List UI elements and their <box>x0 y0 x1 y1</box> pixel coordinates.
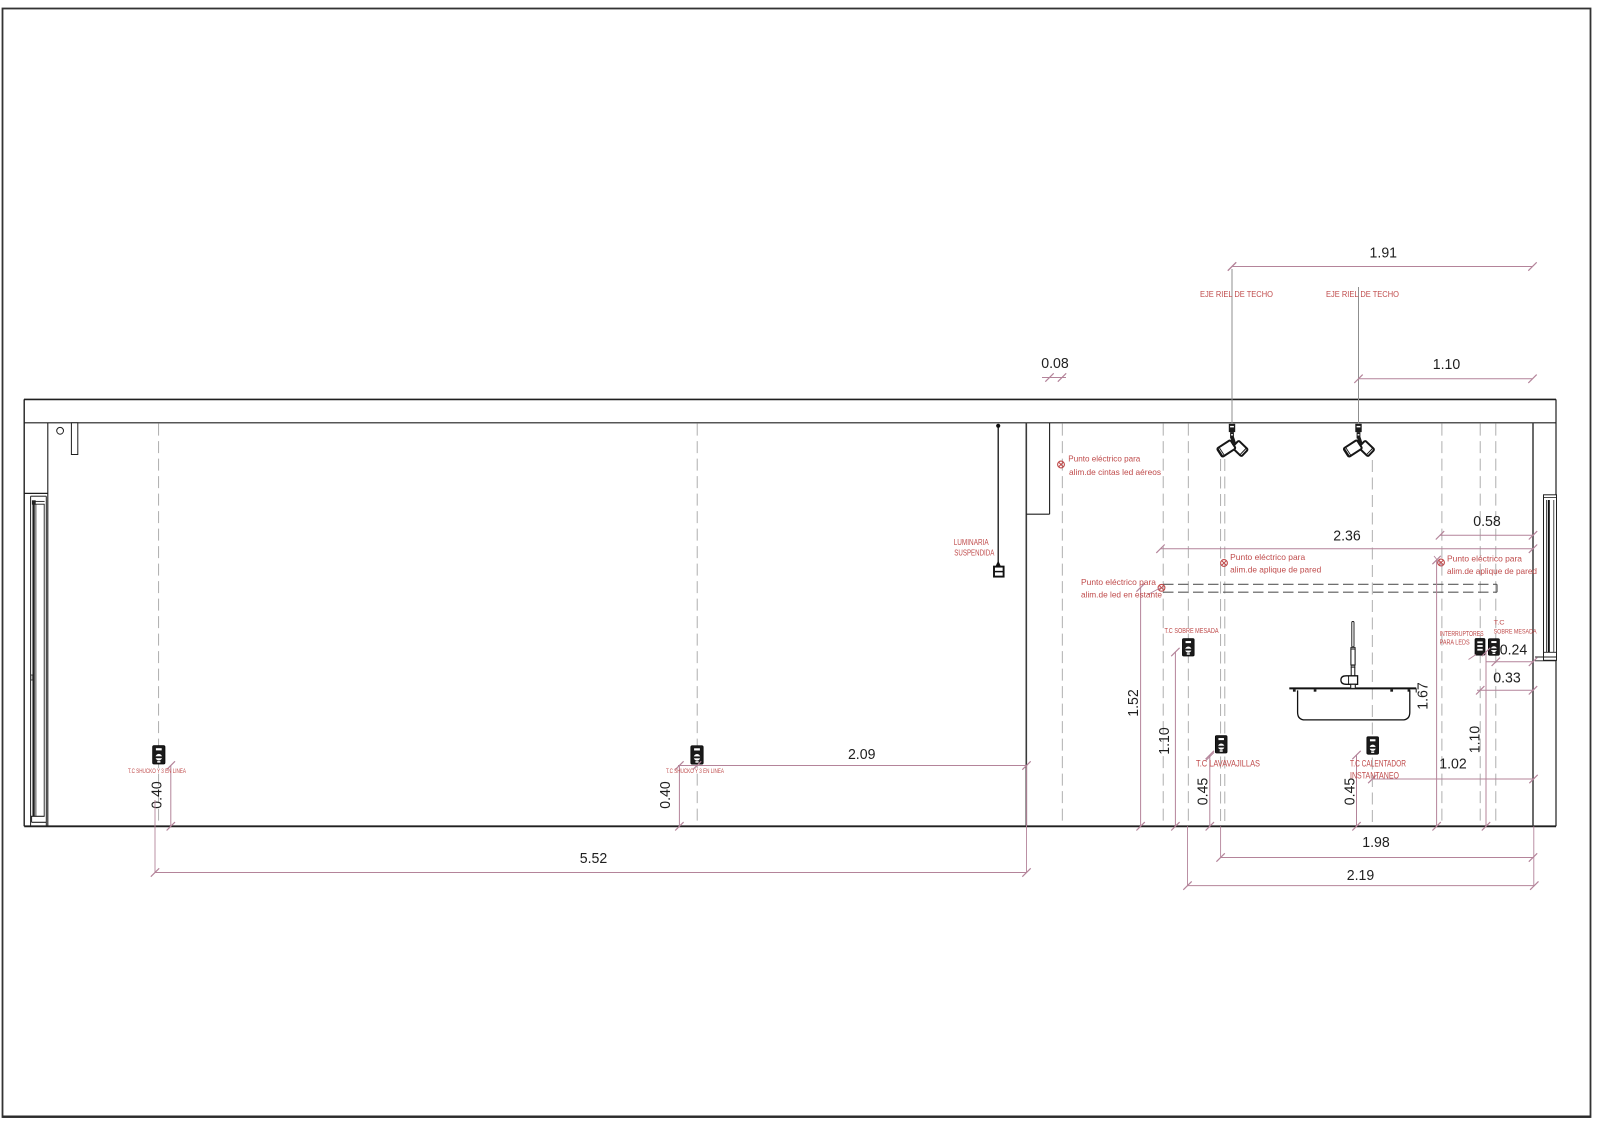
svg-text:INSTANTANEO: INSTANTANEO <box>1350 771 1399 781</box>
svg-text:2.36: 2.36 <box>1333 528 1361 545</box>
dimension 1.67 <box>1436 560 1438 826</box>
extension line 5.52/2.09 right <box>1026 766 1028 874</box>
extension line right wall dims <box>1533 826 1535 886</box>
svg-text:0.40: 0.40 <box>149 781 166 809</box>
extension line 1.91 tick base 1 <box>1228 262 1236 270</box>
centerline axis shucko 2 <box>696 424 698 826</box>
dimension 1.10 left-bottom <box>1174 652 1176 826</box>
sink counter rim <box>1289 687 1416 689</box>
dimension 5.52 <box>155 872 1027 874</box>
ceiling sensor circle <box>57 427 64 434</box>
centerline axis shucko 1 <box>158 424 160 826</box>
extension line 1.98 left <box>1220 826 1222 858</box>
svg-text:1.67: 1.67 <box>1415 682 1432 710</box>
svg-text:LUMINARIA: LUMINARIA <box>954 538 990 547</box>
dimension 0.45 calentador <box>1356 755 1358 826</box>
extension line 5.52 left <box>154 800 156 873</box>
dimension 0.45 lavavajillas <box>1209 755 1211 826</box>
ceiling band top line <box>24 398 1556 400</box>
faucet joint mid <box>1351 665 1355 667</box>
svg-text:0.08: 0.08 <box>1041 355 1069 372</box>
svg-text:SOBRE MESADA: SOBRE MESADA <box>1494 629 1537 636</box>
centerline axis tc sobre mesada L <box>1187 424 1189 826</box>
svg-text:EJE RIEL DE TECHO: EJE RIEL DE TECHO <box>1326 289 1399 299</box>
shelf led dashed line bottom <box>1163 591 1497 593</box>
dimension 0.58 <box>1440 534 1533 536</box>
sink clip ticks <box>1293 689 1296 691</box>
svg-text:alim.de cintas led aéreos: alim.de cintas led aéreos <box>1069 468 1161 477</box>
svg-text:1.02: 1.02 <box>1439 756 1467 773</box>
centerline axis aplique R <box>1441 424 1443 826</box>
svg-text:2.19: 2.19 <box>1347 867 1375 884</box>
dimension 2.09 <box>678 765 1027 767</box>
faucet riser <box>1352 622 1354 648</box>
svg-text:0.45: 0.45 <box>1195 778 1212 806</box>
window right sill lines <box>1544 651 1557 653</box>
electric point punto cintas led <box>1058 461 1065 468</box>
wall middle partition <box>1025 423 1027 827</box>
svg-text:1.91: 1.91 <box>1370 245 1398 262</box>
electric point punto led estante <box>1158 584 1165 591</box>
svg-text:alim.de aplique de pared: alim.de aplique de pared <box>1447 567 1537 576</box>
socket T.C sobre mesada R <box>1488 639 1499 656</box>
svg-text:T.C: T.C <box>1494 619 1505 626</box>
eje riel line 1 <box>1231 269 1233 424</box>
svg-text:1.10: 1.10 <box>1156 727 1173 755</box>
socket T.C sobre mesada L <box>1182 639 1194 656</box>
door leaf inner line 2 <box>43 504 45 816</box>
svg-text:0.45: 0.45 <box>1342 778 1359 806</box>
svg-text:EJE RIEL DE TECHO: EJE RIEL DE TECHO <box>1200 289 1273 299</box>
dimension 0.33 <box>1477 689 1534 691</box>
soffit column right of partition <box>1049 423 1051 514</box>
extension line 2.19 left <box>1187 826 1189 886</box>
svg-text:1.52: 1.52 <box>1125 689 1142 717</box>
leader interruptores <box>1469 655 1477 660</box>
sink bowl <box>1298 690 1410 720</box>
wall left outer line <box>23 399 25 826</box>
door handle tick <box>31 675 33 680</box>
floor line <box>24 825 1556 827</box>
svg-text:5.52: 5.52 <box>580 850 608 867</box>
pendant cone <box>995 561 1001 567</box>
dimension 1.02 <box>1372 778 1533 780</box>
svg-text:alim.de led en estante: alim.de led en estante <box>1081 591 1162 600</box>
centerline axis aplique L <box>1224 459 1226 826</box>
svg-text:Punto eléctrico para: Punto eléctrico para <box>1081 578 1156 587</box>
pendant lamp body <box>994 567 1004 577</box>
leader lavavajillas <box>1206 753 1214 761</box>
door bottom rail <box>31 815 45 817</box>
svg-text:T.C SOBRE MESADA: T.C SOBRE MESADA <box>1165 626 1219 635</box>
svg-text:PARA LEDS: PARA LEDS <box>1440 640 1470 647</box>
centerline axis led estante <box>1162 424 1164 826</box>
pendant lamp middle line <box>994 571 1004 573</box>
dimension 1.10 top <box>1359 378 1533 380</box>
dimension 1.91 <box>1232 266 1533 268</box>
centerline axis cintas led <box>1061 424 1063 826</box>
leader led estante <box>1148 588 1161 595</box>
dimension 1.10 right-bottom <box>1485 652 1487 826</box>
door leaf thick edge <box>32 504 34 816</box>
spotlight track light 2 <box>1343 424 1374 457</box>
faucet spout divider <box>1348 676 1350 685</box>
socket T.C lavavajillas <box>1215 736 1227 753</box>
svg-text:Punto eléctrico para: Punto eléctrico para <box>1447 555 1522 564</box>
svg-text:0.40: 0.40 <box>657 781 674 809</box>
leader aplique R <box>1434 556 1443 567</box>
svg-text:T.C CALENTADOR: T.C CALENTADOR <box>1350 759 1406 769</box>
svg-text:1.10: 1.10 <box>1433 356 1461 373</box>
dimension 0.08 <box>1042 377 1066 379</box>
centerline axis tc lavavajillas <box>1220 459 1222 826</box>
shelf led dashed line top <box>1163 583 1497 585</box>
svg-text:Punto eléctrico para: Punto eléctrico para <box>1068 455 1140 464</box>
door frame top <box>31 495 47 497</box>
wall right inner line <box>1532 423 1534 827</box>
faucet joint top <box>1351 647 1355 649</box>
svg-text:0.24: 0.24 <box>1500 642 1528 659</box>
wall left lintel line <box>24 492 48 494</box>
window right head line <box>1544 497 1557 499</box>
shelf led end cap <box>1496 584 1498 592</box>
wall left inner line <box>47 423 49 827</box>
dimension 1.98 <box>1221 857 1533 859</box>
window right glass thick line <box>1548 500 1550 652</box>
faucet lower column <box>1351 667 1355 676</box>
socket T.C shucko 1 <box>153 746 165 764</box>
svg-text:T.C LAVAVAJILLAS: T.C LAVAVAJILLAS <box>1196 759 1260 769</box>
electric point punto aplique L <box>1221 560 1228 567</box>
ceiling band bottom line <box>24 422 1556 424</box>
faucet spout body <box>1341 676 1358 685</box>
dimension 0.40 left <box>170 766 172 827</box>
pendant cord <box>997 424 999 563</box>
electric point punto aplique R <box>1438 559 1445 566</box>
door head corner block <box>32 501 35 505</box>
door frame right <box>45 496 47 826</box>
door head detail <box>32 500 44 502</box>
svg-text:alim.de aplique de pared: alim.de aplique de pared <box>1230 566 1321 575</box>
svg-text:Punto eléctrico para: Punto eléctrico para <box>1230 553 1305 562</box>
door leaf inner line 1 <box>35 504 37 816</box>
faucet upper column <box>1351 649 1355 665</box>
window right frame outer <box>1544 495 1557 661</box>
centerline axis tc sobre mesada R <box>1495 424 1497 826</box>
svg-text:1.98: 1.98 <box>1362 834 1390 851</box>
centerline axis interruptores <box>1479 424 1481 826</box>
dimension 0.40 mid <box>678 766 680 827</box>
spotlight track light 1 <box>1217 424 1248 457</box>
dimension 0.24 <box>1486 661 1534 663</box>
svg-text:T.C SHUCKO Y 3 EN LINEA: T.C SHUCKO Y 3 EN LINEA <box>666 769 724 775</box>
svg-text:1.10: 1.10 <box>1467 726 1484 754</box>
wall right outer line <box>1555 399 1557 826</box>
switch interruptores para leds <box>1475 639 1485 656</box>
svg-text:INTERRUPTORES: INTERRUPTORES <box>1440 631 1484 638</box>
dimension 2.36 <box>1161 548 1534 550</box>
dimension 2.19 <box>1188 885 1535 887</box>
svg-text:SUSPENDIDA: SUSPENDIDA <box>954 549 995 558</box>
centerline axis sink / calentador <box>1371 460 1373 826</box>
ceiling strip fixture <box>71 423 77 455</box>
svg-text:0.33: 0.33 <box>1493 670 1521 687</box>
svg-text:T.C SHUCKO Y 3 EN LINEA: T.C SHUCKO Y 3 EN LINEA <box>128 769 186 775</box>
eje riel line 2 <box>1358 287 1360 424</box>
dimension 1.52 <box>1140 588 1142 827</box>
socket T.C shucko 2 <box>691 746 703 764</box>
faucet base <box>1351 684 1356 688</box>
window right glass thin lines <box>1545 500 1547 652</box>
socket T.C calentador <box>1367 737 1379 754</box>
svg-text:0.58: 0.58 <box>1473 513 1501 530</box>
pendant canopy dot <box>996 424 1000 428</box>
svg-text:2.09: 2.09 <box>848 746 876 763</box>
door sill <box>32 821 47 823</box>
door frame left <box>30 496 32 826</box>
